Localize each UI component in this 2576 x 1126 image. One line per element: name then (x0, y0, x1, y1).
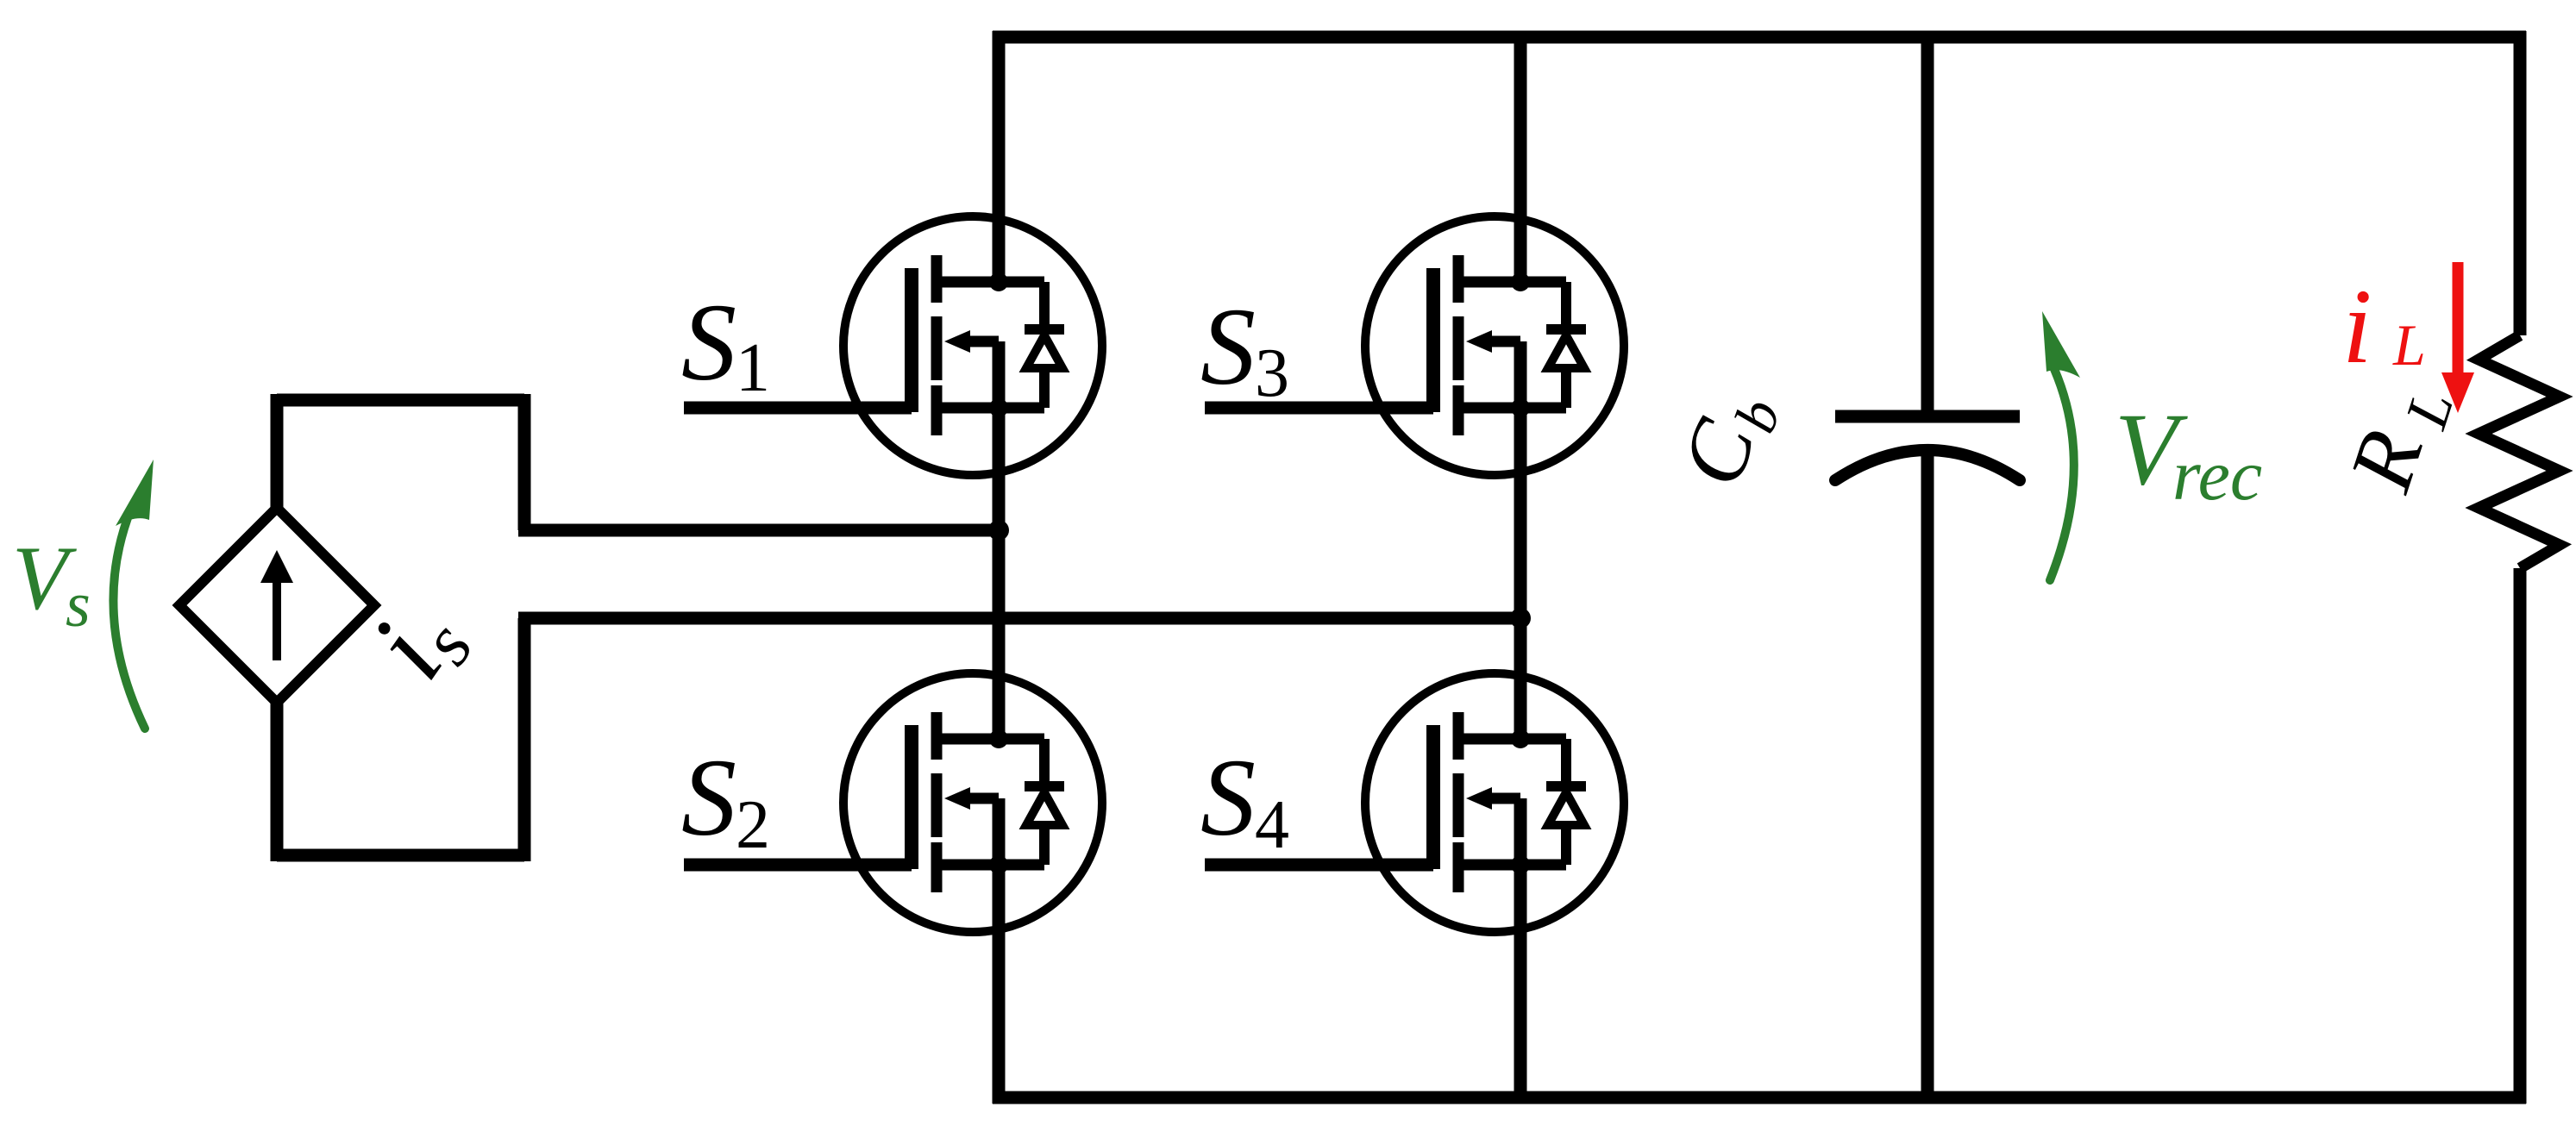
svg-text:s: s (66, 570, 91, 641)
wire S1 source to S2 drain leg (993, 341, 1006, 739)
svg-text:1: 1 (736, 330, 770, 406)
svg-text:i: i (2342, 267, 2372, 385)
wire S4 source to bottom bus (1514, 798, 1527, 1104)
voltage arrow Vrec (green arc) (2050, 369, 2074, 580)
current arrow iL (red) shaft (2453, 262, 2464, 381)
svg-text:S: S (1200, 285, 1256, 408)
transistor S1 (MOSFET) (843, 216, 1102, 475)
wire bottom bus (993, 1092, 2526, 1104)
wire S1 drain leg (top bus to S1) (993, 31, 1006, 282)
gate lead S4 (1205, 859, 1433, 872)
wire source top step vertical (518, 394, 531, 530)
current source is (dependent diamond) (179, 508, 374, 703)
wire node A upper mid rail to S1/S2 midpoint (518, 524, 999, 537)
wire source bottom step vertical (518, 618, 531, 861)
svg-text:3: 3 (1255, 335, 1289, 411)
wire S3 drain leg (top bus to S3) (1514, 31, 1527, 282)
svg-text:S: S (681, 736, 736, 859)
junction node A dot (988, 520, 1009, 541)
label iL (red) (2342, 267, 2426, 385)
wire top bus (993, 31, 2526, 44)
svg-text:L: L (2392, 312, 2426, 378)
wire Cb top leg (1921, 31, 1934, 412)
wire source bottom stub (271, 703, 284, 861)
label is (rotated) (347, 579, 488, 704)
voltage arrow Vs (green arc) (113, 509, 145, 729)
svg-text:R: R (2330, 419, 2441, 503)
transistor S3 (MOSFET) (1365, 216, 1624, 475)
capacitor Cb top plate (1835, 410, 2020, 423)
wire S3 source to S4 drain leg (1514, 341, 1527, 739)
svg-text:S: S (681, 281, 736, 403)
voltage arrow Vs head (116, 460, 154, 526)
current source is arrow (260, 550, 293, 660)
junction node B dot (1510, 608, 1531, 629)
label RL (rotated) (2330, 371, 2466, 506)
svg-text:rec: rec (2172, 435, 2262, 516)
transistor S2 (MOSFET) (843, 673, 1102, 932)
svg-text:S: S (1200, 736, 1256, 859)
wire source bottom terminal horizontal (277, 849, 524, 862)
label Cb (rotated) (1662, 377, 1794, 501)
label Vrec (green) (2115, 391, 2262, 516)
wire node B lower mid rail to S3/S4 midpoint (518, 612, 1520, 625)
wire source top terminal horizontal (277, 394, 524, 407)
gate lead S1 (684, 402, 912, 415)
current arrow iL (red) head (2441, 372, 2474, 413)
transistor S4 (MOSFET) (1365, 673, 1624, 932)
resistor RL zigzag (2479, 335, 2560, 568)
wire S2 source to bottom bus (993, 798, 1006, 1104)
wire RL top leg (2514, 31, 2527, 335)
gate lead S3 (1205, 402, 1433, 415)
gate lead S2 (684, 859, 912, 872)
wire RL bottom leg (2514, 568, 2527, 1104)
wire source top stub (271, 394, 284, 508)
label Vs (green) (12, 528, 91, 641)
wire Cb bottom leg (1921, 452, 1934, 1104)
svg-text:2: 2 (736, 787, 770, 863)
capacitor Cb bottom curved plate (1835, 450, 2020, 480)
voltage arrow Vrec head (2042, 311, 2080, 378)
svg-text:4: 4 (1255, 787, 1289, 863)
